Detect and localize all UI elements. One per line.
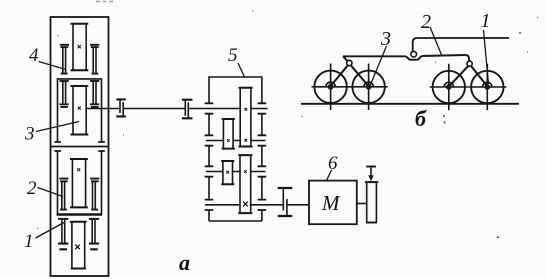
gearbox unit 2 x-mark	[77, 168, 80, 171]
gearbox 5 right wall segments with bearing breaks	[261, 115, 263, 222]
svg-text:3: 3	[24, 124, 35, 145]
svg-text:а: а	[179, 250, 190, 275]
bearing caps left wall shaft3	[205, 166, 214, 176]
gearbox 5 shaft 2	[206, 140, 266, 142]
gearbox 5 housing bottom	[209, 220, 262, 222]
right links to wheel hubs	[450, 66, 486, 85]
gear A1 x-marks	[245, 108, 248, 142]
left pivot joint	[347, 60, 352, 65]
gearbox unit 2 central gear rect	[70, 159, 88, 207]
coupling M2	[182, 100, 193, 119]
leader for 1	[484, 30, 489, 84]
svg-text:6: 6	[328, 153, 338, 174]
coupling M1	[116, 99, 126, 116]
leader line for 1	[36, 223, 65, 239]
gearbox unit 4 x-mark	[78, 45, 81, 48]
svg-text:2: 2	[27, 178, 37, 199]
leader for 3	[370, 46, 386, 85]
gear A2 marks	[244, 170, 247, 173]
svg-text:2: 2	[421, 11, 431, 33]
brake arrow	[370, 168, 372, 177]
motor output link	[357, 203, 367, 205]
svg-text:3: 3	[380, 28, 391, 50]
gear rect A2	[238, 155, 252, 213]
bearing caps left wall shaft4	[205, 200, 214, 210]
gear B1 mark	[227, 139, 230, 142]
wheel W3	[430, 64, 468, 110]
svg-text:1: 1	[24, 231, 34, 252]
wheel W2	[350, 64, 388, 111]
wheel W1	[312, 64, 350, 111]
svg-text:1: 1	[481, 10, 491, 32]
gearbox unit 1 right wheel	[89, 219, 99, 249]
gearbox unit 1 x-mark	[75, 245, 80, 250]
beam right end link down to pivot	[466, 55, 470, 61]
gearbox unit 3 x-mark	[78, 107, 81, 110]
gearbox 5 shaft 3	[206, 171, 266, 173]
gear rect A1	[239, 88, 253, 147]
frame outer box of axle drive (diagram a)	[51, 17, 109, 276]
bearing caps right wall shaft3	[258, 166, 267, 176]
svg-text:4: 4	[29, 45, 39, 66]
svg-text:5: 5	[228, 45, 238, 66]
faint page-top remnant	[96, 1, 113, 3]
gearbox unit 3 central gear rect	[71, 86, 89, 135]
rail ground line	[301, 103, 519, 105]
gearbox unit 1 central gear rect	[70, 222, 87, 269]
gearbox unit 1 left wheel	[58, 219, 68, 249]
gear rect B1	[222, 119, 235, 149]
bearing caps right wall shaft1	[258, 103, 267, 113]
gearbox 5 housing top	[208, 108, 210, 110]
beam left end link down to pivot	[343, 56, 348, 61]
leader line for 5	[238, 63, 245, 77]
right pivot joint	[467, 61, 472, 66]
gear B2 mark	[226, 171, 229, 174]
motor M box	[309, 181, 357, 225]
center pivot joint	[411, 51, 417, 57]
gearbox unit 4 right wheel	[90, 45, 99, 74]
brake arrow top bar	[366, 166, 376, 168]
gearbox unit 4 left wheel	[60, 45, 69, 74]
leader line for 3	[36, 122, 79, 132]
gearbox unit 4 central gear rect	[71, 24, 89, 71]
coupling M3 (motor)	[278, 188, 293, 216]
scan speckles	[37, 11, 538, 229]
gearbox unit 3 right wheel	[90, 81, 99, 107]
equalizer beam with center dip	[343, 55, 466, 56]
gearbox unit 2 left wheel	[59, 179, 68, 210]
bearing caps right wall shaft2	[258, 135, 267, 145]
bearing caps right wall shaft4	[258, 200, 267, 210]
leader for 2	[430, 27, 442, 56]
gearbox unit 3 left wheel	[60, 81, 69, 107]
wheel W4	[468, 64, 506, 110]
gearbox unit 2 housing	[54, 151, 104, 215]
svg-text:б: б	[415, 106, 427, 131]
gearbox unit 3 housing	[54, 79, 104, 142]
gearbox 5 output shaft 4	[205, 204, 309, 206]
bearing caps left wall shaft2	[205, 135, 214, 145]
wheelset axle between units 3 and 2	[51, 146, 109, 148]
center hanger to top bar	[413, 38, 509, 52]
gearbox 5 left wall segments with bearing breaks	[208, 115, 210, 222]
bearing caps left wall shaft1	[205, 103, 214, 113]
input shaft segments (y=108.5)	[86, 108, 267, 110]
leader line for 4	[39, 62, 67, 70]
gear rect B2	[221, 161, 234, 184]
gearbox unit 2 right wheel	[90, 179, 99, 210]
leader line for 2	[38, 188, 64, 197]
svg-text:М: М	[321, 191, 341, 215]
leader line for 6	[327, 170, 332, 181]
left links to wheel hubs	[332, 65, 368, 85]
brake rect	[365, 182, 379, 222]
